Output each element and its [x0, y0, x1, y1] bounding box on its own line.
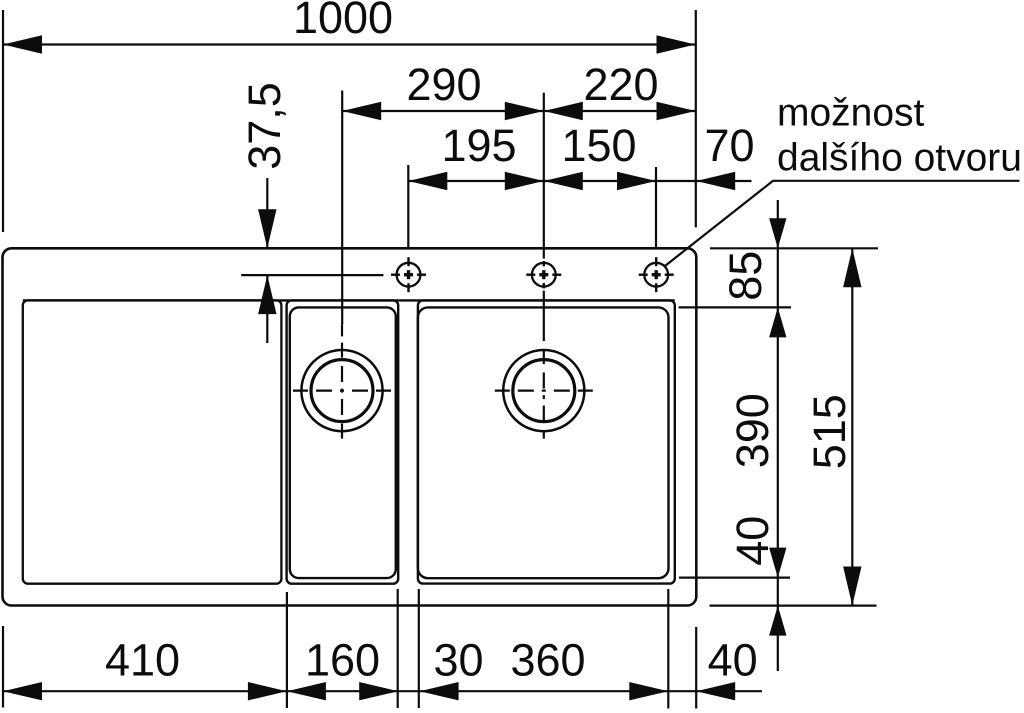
- drainer board area: [23, 300, 282, 583]
- dimension 1000 line: [3, 43, 696, 45]
- dimension 195/150/70 line: [408, 180, 751, 182]
- right tick top (sink top edge): [710, 247, 878, 249]
- large bowl outer rim: [418, 300, 675, 583]
- dimension 515 vertical line: [851, 248, 853, 605]
- svg-text:195: 195: [441, 120, 516, 171]
- svg-text:290: 290: [406, 59, 481, 110]
- dimension 85/390/40 vertical line: [777, 200, 779, 671]
- bottom extension line far left: [2, 626, 4, 708]
- faucet hole 2: [526, 261, 561, 288]
- extension line hole 3: [655, 167, 657, 249]
- leader line to extra hole: [665, 181, 1020, 266]
- svg-text:360: 360: [510, 635, 585, 686]
- svg-text:150: 150: [561, 120, 636, 171]
- svg-text:dalšího otvoru: dalšího otvoru: [777, 136, 1022, 179]
- small bowl outer rim: [287, 300, 399, 583]
- right tick bowl top: [679, 306, 791, 308]
- extension line left of 1000: [2, 10, 4, 232]
- right tick sink bottom: [710, 604, 877, 606]
- extension line right of 1000: [695, 10, 697, 227]
- svg-text:40: 40: [727, 516, 778, 566]
- svg-text:410: 410: [105, 635, 180, 686]
- bottom dimension line: [3, 690, 762, 692]
- svg-text:30: 30: [433, 635, 483, 686]
- svg-text:160: 160: [305, 635, 380, 686]
- svg-text:515: 515: [804, 394, 855, 469]
- svg-text:1000: 1000: [293, 0, 393, 43]
- large bowl drain: [495, 335, 593, 439]
- svg-text:možnost: možnost: [777, 91, 925, 134]
- extension/centre line large drain lower: [543, 291, 545, 335]
- top rim line of bowls: [23, 299, 675, 301]
- tick line for 37,5: [241, 274, 383, 276]
- svg-text:85: 85: [720, 251, 771, 301]
- svg-text:390: 390: [727, 393, 778, 468]
- dimension 37,5: [266, 178, 268, 248]
- svg-text:40: 40: [708, 635, 758, 686]
- large bowl inner edge: [418, 307, 669, 578]
- bottom extension line sink right: [695, 627, 697, 709]
- sink outer outline: [3, 248, 697, 605]
- svg-text:220: 220: [583, 59, 658, 110]
- small bowl inner edge: [290, 307, 396, 578]
- right tick bowl bottom: [679, 576, 790, 578]
- faucet hole 1: [391, 257, 426, 292]
- dimension 290/220 line: [342, 110, 695, 112]
- bottom extension line large bowl left: [418, 589, 420, 708]
- extension/centre line small drain: [341, 91, 343, 325]
- small bowl drain: [293, 324, 391, 438]
- bottom extension line small bowl left: [286, 592, 288, 708]
- bottom extension line large bowl right: [667, 589, 669, 709]
- svg-text:70: 70: [704, 120, 754, 171]
- faucet hole 3 (possible extra hole): [639, 257, 674, 292]
- svg-text:37,5: 37,5: [239, 82, 290, 170]
- extension/centre line large drain upper: [543, 93, 545, 259]
- bottom extension line small bowl right: [397, 589, 399, 708]
- extension line hole 1: [407, 165, 409, 248]
